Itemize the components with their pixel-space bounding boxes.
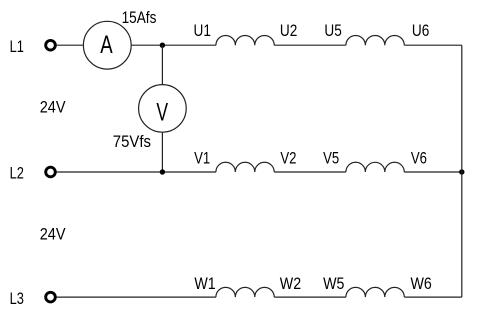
terminal L3 (46, 292, 56, 302)
wire L2 to coil V (56, 171, 216, 173)
wire U6 to right rail (404, 44, 462, 46)
wire W6 to right rail (404, 296, 462, 298)
junction right rail middle (459, 169, 464, 174)
terminal L1 (46, 40, 56, 50)
svg-text:V6: V6 (411, 149, 427, 167)
svg-text:U2: U2 (280, 22, 297, 40)
wire voltmeter down to L2 line (161, 132, 163, 172)
wire junction down to voltmeter (161, 45, 163, 84)
svg-text:24V: 24V (40, 225, 66, 243)
inductor V1-V2 (216, 162, 274, 172)
wire L3 to coil W (56, 296, 216, 298)
svg-text:L3: L3 (10, 290, 24, 308)
svg-text:W6: W6 (411, 275, 432, 293)
terminal L2 (46, 167, 56, 177)
svg-text:V5: V5 (323, 149, 339, 167)
wire W2 to W5 (274, 296, 346, 298)
inductor V5-V6 (346, 162, 404, 172)
svg-text:75Vfs: 75Vfs (113, 133, 151, 151)
svg-text:W2: W2 (280, 275, 301, 293)
svg-text:L1: L1 (10, 38, 24, 56)
inductor U5-U6 (346, 35, 404, 45)
wire L1 terminal to ammeter (56, 44, 83, 46)
wire ammeter to coil U (131, 44, 216, 46)
svg-text:15Afs: 15Afs (122, 9, 157, 27)
junction L2/voltmeter (160, 169, 165, 174)
wire V2 to V5 (274, 171, 346, 173)
svg-text:24V: 24V (40, 98, 66, 116)
svg-text:W5: W5 (323, 275, 344, 293)
svg-text:U1: U1 (194, 22, 211, 40)
inductor W5-W6 (346, 287, 404, 297)
junction top (160, 43, 165, 48)
inductor U1-U2 (216, 35, 274, 45)
svg-text:U5: U5 (324, 22, 341, 40)
svg-text:A: A (100, 31, 113, 59)
svg-text:L2: L2 (10, 165, 24, 183)
voltmeter P2 (139, 85, 187, 133)
svg-text:V1: V1 (194, 149, 210, 167)
wire V6 to right rail (404, 171, 462, 173)
svg-text:V: V (156, 99, 168, 126)
inductor W1-W2 (216, 287, 274, 297)
ammeter P1 (83, 21, 131, 69)
svg-text:V2: V2 (280, 149, 296, 167)
right rail vertical wire (461, 45, 463, 297)
svg-text:W1: W1 (194, 275, 215, 293)
wire U2 to U5 (274, 44, 346, 46)
svg-text:U6: U6 (412, 22, 429, 40)
